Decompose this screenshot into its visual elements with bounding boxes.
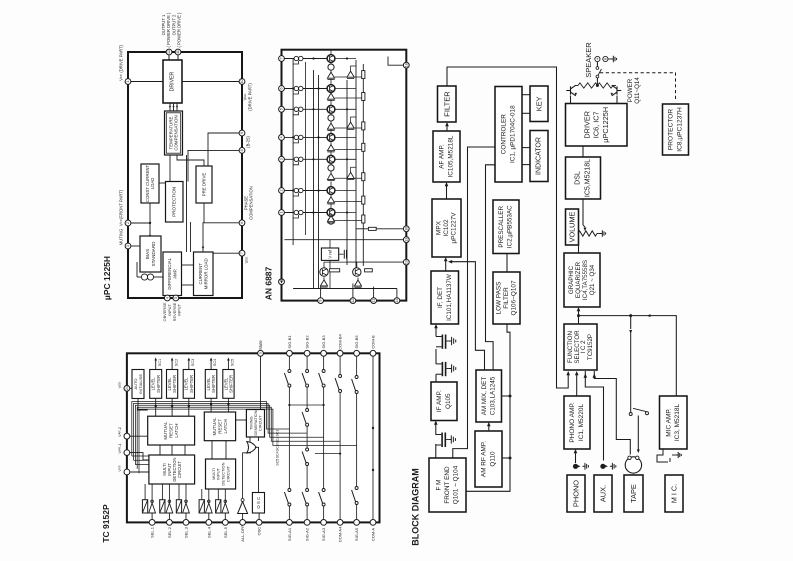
svg-text:3: 3 — [259, 352, 263, 354]
svg-text:LATCH: LATCH — [223, 419, 228, 433]
svg-text:9: 9 — [240, 132, 244, 134]
svg-text:7: 7 — [280, 58, 284, 60]
svg-text:CIRCUIT: CIRCUIT — [225, 465, 230, 482]
svg-text:BIAS: BIAS — [145, 249, 150, 259]
svg-text:COMPENSATION: COMPENSATION — [174, 115, 179, 150]
svg-text:TAPE: TAPE — [629, 484, 638, 503]
svg-text:COM-B: COM-B — [371, 335, 376, 349]
svg-text:IF, DET: IF, DET — [437, 287, 444, 308]
svg-text:SIG-A3: SIG-A3 — [321, 527, 326, 541]
svg-text:IC2,µPB553AC: IC2,µPB553AC — [507, 205, 514, 248]
svg-text:VOLUME: VOLUME — [568, 211, 577, 242]
svg-text:SC2: SC2 — [276, 437, 280, 444]
svg-text:SIG-A1: SIG-A1 — [287, 527, 292, 541]
svg-text:INPUT: INPUT — [177, 304, 182, 316]
svg-text:SC1: SC1 — [158, 359, 162, 366]
svg-text:KEY: KEY — [535, 96, 544, 111]
svg-text:CIRCUIT: CIRCUIT — [177, 461, 182, 478]
svg-text:IC4,TA75558S: IC4,TA75558S — [582, 260, 589, 300]
svg-text:IC6, IC7: IC6, IC7 — [592, 111, 601, 138]
svg-text:11: 11 — [372, 299, 376, 303]
svg-text:SEL.2: SEL.2 — [167, 526, 172, 538]
svg-text:8: 8 — [240, 149, 244, 151]
svg-text:3: 3 — [126, 245, 130, 247]
svg-text:RESET: RESET — [217, 419, 222, 434]
svg-text:AM RF AMP.: AM RF AMP. — [481, 441, 488, 477]
svg-text:Q21 ~ Q34: Q21 ~ Q34 — [589, 264, 596, 295]
svg-text:18: 18 — [404, 63, 408, 67]
svg-text:COM-A: COM-A — [371, 528, 376, 542]
svg-text:SC4: SC4 — [213, 359, 217, 366]
svg-text:VCC(FRONT PART): VCC(FRONT PART) — [119, 189, 124, 226]
svg-text:C103,LA1245: C103,LA1245 — [490, 376, 497, 415]
svg-text:SPEAKER: SPEAKER — [584, 42, 593, 78]
svg-text:SC3: SC3 — [191, 359, 195, 366]
svg-text:9: 9 — [319, 300, 323, 302]
svg-text:CONTROLER: CONTROLER — [501, 114, 508, 155]
svg-text:Q106~Q107: Q106~Q107 — [511, 280, 518, 315]
svg-text:2: 2 — [280, 190, 284, 192]
svg-text:VDD: VDD — [117, 382, 122, 389]
svg-text:SIG-B1: SIG-B1 — [287, 335, 292, 349]
svg-text:10: 10 — [404, 260, 408, 264]
svg-text:V ref: V ref — [328, 249, 333, 259]
svg-text:SIG-A5: SIG-A5 — [354, 527, 359, 541]
svg-text:24: 24 — [125, 386, 129, 390]
svg-text:PRESCALLER: PRESCALLER — [498, 206, 505, 248]
svg-text:ALL-OFF: ALL-OFF — [240, 525, 245, 542]
svg-text:VAR-1: VAR-1 — [117, 444, 122, 454]
svg-text:5: 5 — [174, 297, 178, 299]
svg-text:AMP.: AMP. — [172, 269, 177, 279]
svg-text:1: 1 — [126, 81, 130, 83]
svg-text:CIRCUIT: CIRCUIT — [258, 415, 263, 431]
svg-text:Q105: Q105 — [445, 393, 452, 409]
svg-text:(DRIVE PART): (DRIVE PART) — [248, 83, 253, 111]
svg-text:+: + — [596, 57, 599, 62]
svg-text:MUTUAL: MUTUAL — [163, 421, 168, 440]
svg-text:SIG-B3: SIG-B3 — [321, 335, 326, 349]
svg-text:1: 1 — [280, 212, 284, 214]
svg-text:(B-25): (B-25) — [246, 136, 251, 148]
svg-text:BLOCK DIAGRAM: BLOCK DIAGRAM — [411, 468, 421, 546]
svg-text:FILTER: FILTER — [442, 91, 451, 117]
svg-text:SIG-B5: SIG-B5 — [354, 335, 359, 349]
svg-text:GRAPHIC: GRAPHIC — [568, 265, 575, 294]
svg-text:SC5: SC5 — [231, 359, 235, 366]
svg-text:SHIFTER: SHIFTER — [189, 375, 194, 393]
svg-text:PROTECTOR: PROTECTOR — [668, 109, 675, 151]
svg-text:O S C: O S C — [256, 497, 261, 509]
svg-text:OSC: OSC — [257, 527, 262, 536]
svg-text:TC9152P: TC9152P — [587, 334, 594, 360]
svg-text:( POWER DRIVE ): ( POWER DRIVE ) — [166, 12, 171, 48]
svg-text:MIRROR LOAD: MIRROR LOAD — [203, 258, 208, 289]
svg-text:14: 14 — [395, 299, 399, 303]
svg-text:IC101,HA1137W: IC101,HA1137W — [446, 274, 453, 321]
svg-text:DRIVER: DRIVER — [582, 111, 591, 139]
svg-text:IC8,µPC1237H: IC8,µPC1237H — [677, 107, 684, 152]
svg-text:6: 6 — [240, 222, 244, 224]
svg-text:( POWER DRIVE ): ( POWER DRIVE ) — [177, 12, 182, 48]
svg-text:Mute: Mute — [258, 340, 263, 350]
svg-text:SHIFTER: SHIFTER — [229, 375, 234, 393]
svg-text:VEE: VEE — [244, 257, 249, 264]
svg-text:11: 11 — [176, 50, 180, 54]
svg-text:SEL.4: SEL.4 — [206, 526, 211, 538]
svg-text:LOAD: LOAD — [150, 178, 155, 190]
svg-text:4: 4 — [280, 136, 284, 138]
svg-text:µPC1225H: µPC1225H — [601, 107, 610, 143]
svg-text:SHIFTER: SHIFTER — [172, 375, 177, 393]
svg-text:µPC1227V: µPC1227V — [451, 212, 458, 244]
svg-text:SEL.5: SEL.5 — [223, 526, 228, 538]
svg-text:VAR-2: VAR-2 — [117, 427, 122, 437]
svg-text:Q110: Q110 — [490, 451, 497, 467]
svg-text:FRONT END: FRONT END — [444, 466, 451, 504]
svg-text:VSS: VSS — [117, 465, 122, 471]
svg-text:7: 7 — [240, 252, 244, 254]
svg-text:IC1, M5220L: IC1, M5220L — [578, 404, 585, 442]
svg-text:6: 6 — [280, 88, 284, 90]
svg-text:PRE DRIVE: PRE DRIVE — [202, 173, 207, 197]
svg-text:FILTER: FILTER — [503, 287, 510, 309]
svg-text:4: 4 — [165, 297, 169, 299]
svg-text:SHIFTER: SHIFTER — [211, 375, 216, 393]
svg-text:IC1, µPD1704C-018: IC1, µPD1704C-018 — [510, 105, 517, 163]
svg-text:LOW PASS: LOW PASS — [495, 282, 502, 315]
svg-text:MIC AMP.: MIC AMP. — [665, 408, 672, 437]
svg-text:10: 10 — [240, 80, 244, 84]
svg-text:SHIFTER: SHIFTER — [156, 375, 161, 393]
svg-text:SEL.1: SEL.1 — [150, 526, 155, 538]
svg-text:PHONO: PHONO — [572, 480, 581, 507]
svg-text:SC2: SC2 — [174, 359, 178, 366]
svg-text:SIG-B2: SIG-B2 — [305, 335, 310, 349]
svg-text:12: 12 — [167, 50, 171, 54]
svg-text:DIFFERENCIAL: DIFFERENCIAL — [167, 257, 172, 289]
svg-text:VCC (DRIVE PART): VCC (DRIVE PART) — [119, 44, 124, 80]
svg-text:TEMPERATURE: TEMPERATURE — [168, 117, 173, 150]
svg-text:SEL.3: SEL.3 — [184, 526, 189, 538]
svg-text:PROTECTION: PROTECTION — [172, 187, 177, 217]
svg-text:F M: F M — [436, 479, 443, 490]
svg-text:RESET: RESET — [169, 423, 174, 438]
svg-text:13: 13 — [404, 238, 408, 242]
svg-text:SC4: SC4 — [276, 451, 280, 458]
svg-text:CURRENT: CURRENT — [198, 263, 203, 285]
svg-text:AN 6887: AN 6887 — [264, 266, 274, 300]
svg-text:IC102: IC102 — [443, 219, 450, 236]
svg-text:AUX.: AUX. — [599, 485, 608, 502]
svg-text:COM-B4: COM-B4 — [338, 333, 343, 349]
svg-text:2: 2 — [126, 222, 130, 224]
svg-text:SC5: SC5 — [276, 459, 280, 466]
svg-text:Q101 ~ Q104: Q101 ~ Q104 — [453, 465, 460, 504]
svg-text:INDICATOR: INDICATOR — [536, 137, 543, 175]
svg-text:SIG-A2: SIG-A2 — [305, 527, 310, 541]
svg-text:INITIALISE: INITIALISE — [138, 374, 143, 394]
svg-text:MPX: MPX — [435, 220, 442, 235]
svg-text:Q11~Q14: Q11~Q14 — [634, 77, 641, 104]
svg-text:PHONO AMP.: PHONO AMP. — [569, 402, 576, 443]
svg-text:12: 12 — [351, 299, 355, 303]
svg-text:IC3, M5218L: IC3, M5218L — [674, 404, 681, 442]
svg-text:POWER: POWER — [627, 78, 634, 102]
svg-text:STANDARD: STANDARD — [151, 241, 156, 267]
svg-text:3: 3 — [280, 158, 284, 160]
svg-text:IC105,M5218L: IC105,M5218L — [448, 135, 455, 177]
svg-text:M I C.: M I C. — [670, 484, 679, 503]
svg-text:LATCH: LATCH — [174, 424, 179, 438]
svg-text:IC5,M5218L: IC5,M5218L — [585, 159, 592, 197]
svg-text:AF AMP.: AF AMP. — [439, 144, 446, 169]
svg-text:µPC 1225H: µPC 1225H — [102, 256, 112, 300]
svg-text:DRIVER: DRIVER — [170, 71, 176, 91]
svg-text:TC 9152P: TC 9152P — [101, 504, 111, 543]
svg-text:16: 16 — [404, 227, 408, 231]
svg-text:COM-A4: COM-A4 — [338, 526, 343, 542]
svg-text:IF AMP.: IF AMP. — [436, 390, 443, 412]
svg-text:MUTUAL: MUTUAL — [212, 417, 217, 436]
svg-text:DSL: DSL — [574, 171, 581, 185]
svg-text:5: 5 — [280, 108, 284, 110]
svg-text:EQUARIZER: EQUARIZER — [575, 261, 582, 298]
svg-text:MUTING: MUTING — [119, 229, 124, 246]
svg-text:AM MIX, DET: AM MIX, DET — [481, 377, 488, 416]
svg-text:COMPENSATION: COMPENSATION — [249, 186, 254, 220]
